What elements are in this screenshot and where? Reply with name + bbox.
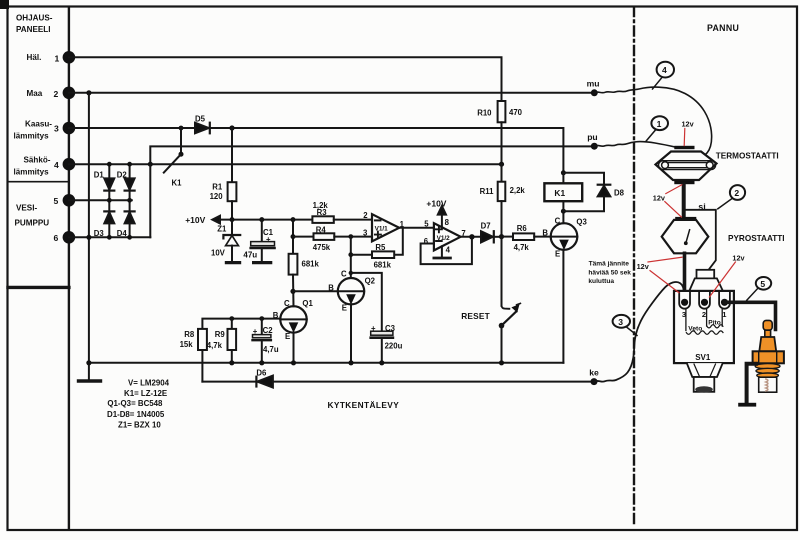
svg-text:Q2: Q2 xyxy=(365,276,376,285)
glow plug insulator cone xyxy=(759,337,776,351)
legend text block xyxy=(107,378,170,429)
resistor R9 4,7k xyxy=(207,319,236,363)
svg-text:15k: 15k xyxy=(180,340,194,349)
svg-text:Häl.: Häl. xyxy=(27,53,42,62)
svg-text:5: 5 xyxy=(424,220,429,229)
svg-text:Z1: Z1 xyxy=(217,225,227,234)
+10V arrow label left xyxy=(185,215,220,225)
SV1 Pito coil xyxy=(707,310,723,328)
node rail R9 xyxy=(229,360,234,365)
wire Kaasu pin3 to D5 xyxy=(69,127,195,129)
node D4 bottom xyxy=(127,235,132,240)
solenoid valve SV1 top boss cylinder xyxy=(697,270,715,279)
svg-text:E: E xyxy=(285,332,290,341)
diode D7 xyxy=(481,221,502,242)
zener Z1 10V xyxy=(211,220,240,263)
glow plug hex body xyxy=(753,351,784,363)
wire SV1 pin1 to glow plug thick xyxy=(725,302,776,329)
svg-text:D1: D1 xyxy=(94,170,105,179)
svg-text:+: + xyxy=(371,324,376,333)
node mu xyxy=(591,89,598,96)
thermostat top plate xyxy=(674,146,694,149)
resistor R11 2,2k xyxy=(480,164,526,236)
svg-text:KYTKENTÄLEVY: KYTKENTÄLEVY xyxy=(328,400,400,410)
svg-text:Tämä jännite: Tämä jännite xyxy=(589,260,630,267)
svg-text:6: 6 xyxy=(54,233,59,243)
svg-text:B: B xyxy=(542,229,548,238)
wire Maa ground drop xyxy=(88,93,90,381)
op-amp V1/1 xyxy=(363,211,405,241)
node Q1C Q2B junction xyxy=(290,289,295,294)
svg-text:SV1: SV1 xyxy=(695,353,711,362)
node C3 branch xyxy=(349,271,353,275)
wire V1/2 output xyxy=(461,236,481,238)
switch RESET top contact foot xyxy=(502,306,510,309)
node rail reset xyxy=(499,360,504,365)
transistor Q2 xyxy=(328,269,375,312)
svg-text:4,7k: 4,7k xyxy=(207,341,223,350)
ground bar glow plug xyxy=(738,403,756,407)
node R1 Z1 xyxy=(230,217,235,222)
node D7 R6 R11 reset junction xyxy=(499,234,504,239)
wire bridge right column xyxy=(149,164,151,237)
svg-text:VESI-: VESI- xyxy=(16,204,37,213)
svg-text:D3: D3 xyxy=(94,229,105,238)
contact K1 pivot xyxy=(179,152,184,157)
node Q3C K1 D8 xyxy=(561,209,566,214)
svg-text:PUMPPU: PUMPPU xyxy=(15,219,50,228)
relay coil K1 xyxy=(544,173,582,211)
svg-text:D1-D8= 1N4005: D1-D8= 1N4005 xyxy=(107,410,165,419)
solenoid valve SV1 body xyxy=(674,291,734,363)
svg-text:681k: 681k xyxy=(374,261,392,270)
svg-text:R5: R5 xyxy=(375,243,386,252)
node rail Q1E xyxy=(291,360,296,365)
node R10 R11 Sahko junction xyxy=(499,162,504,167)
ground Maa xyxy=(79,379,101,382)
wire pin5 line xyxy=(69,199,132,201)
svg-text:12v: 12v xyxy=(732,253,745,262)
svg-text:C: C xyxy=(341,269,347,278)
svg-text:681k: 681k xyxy=(302,260,320,269)
panel title OHJAUS-PANEELI xyxy=(14,14,60,244)
wire Q3 collector xyxy=(562,211,564,223)
svg-text:+: + xyxy=(266,235,271,244)
wire ke squiggle to SV1 pin3 xyxy=(594,282,684,382)
svg-text:PANNU: PANNU xyxy=(707,23,739,33)
svg-text:R10: R10 xyxy=(477,109,492,118)
svg-text:Z1= BZX 10: Z1= BZX 10 xyxy=(118,420,161,429)
svg-text:12v: 12v xyxy=(682,120,695,129)
svg-text:2,2k: 2,2k xyxy=(510,186,526,195)
svg-text:470: 470 xyxy=(509,108,523,117)
node R4 tap xyxy=(291,234,296,239)
svg-text:K1: K1 xyxy=(554,188,565,198)
svg-text:OHJAUS-: OHJAUS- xyxy=(16,14,53,23)
wire D5 to K1 coil column xyxy=(210,128,564,173)
node R9 top xyxy=(229,316,234,321)
wire Q1 base line xyxy=(202,319,280,329)
resistor R3 1,2k xyxy=(312,201,372,223)
switch RESET blade xyxy=(461,303,520,328)
dashed divider between KYTKENTALEVY and PANNU xyxy=(633,7,635,525)
wire pin3 column down to Q2 collector xyxy=(350,237,352,278)
wire Maa pin2 to mu xyxy=(69,92,594,94)
svg-text:4: 4 xyxy=(54,160,59,170)
svg-text:E: E xyxy=(342,303,347,312)
node rail C2 xyxy=(259,360,264,365)
svg-text:1,2k: 1,2k xyxy=(313,201,329,210)
wire V1/1 output xyxy=(399,227,434,229)
pyrostaatti body PYROSTAATTI xyxy=(662,220,709,253)
node pin6 Maa junction xyxy=(86,235,91,240)
svg-text:10V: 10V xyxy=(211,248,226,257)
wire reset column upper xyxy=(501,237,503,306)
control panel bus (OHJAUS-PANEELI) vertical line xyxy=(68,7,70,529)
svg-text:3: 3 xyxy=(363,228,368,237)
wire K1 top link to D8 xyxy=(563,172,604,174)
contact K1 blade xyxy=(164,154,181,172)
svg-text:2: 2 xyxy=(702,310,706,319)
svg-text:Kaasu-: Kaasu- xyxy=(25,120,52,129)
node rail Maa xyxy=(86,360,91,365)
thermostat bottom plate xyxy=(674,181,694,184)
wire mu squiggle to termostaatti xyxy=(594,87,711,156)
diode D6 xyxy=(256,368,273,387)
terminal 5 (Vesi-pumppu +) xyxy=(63,194,76,207)
wire Q3C to D8 bottom xyxy=(563,196,604,211)
SV1 pin 3 socket xyxy=(679,292,690,319)
SV1 bottom hex nut xyxy=(687,363,723,377)
capacitor C2 4,7u xyxy=(253,319,279,363)
svg-text:+10V: +10V xyxy=(185,215,205,225)
svg-text:D2: D2 xyxy=(117,170,128,179)
svg-text:475k: 475k xyxy=(313,243,331,252)
node D2-D4 mid xyxy=(127,198,132,203)
diode D4 xyxy=(117,200,135,238)
svg-text:4: 4 xyxy=(662,65,667,75)
diode D2 xyxy=(117,164,135,200)
svg-text:Q3: Q3 xyxy=(576,217,587,226)
node D1 top xyxy=(107,162,112,167)
node C2 top xyxy=(259,316,264,321)
wire pin6 feedback loop xyxy=(421,237,472,264)
wire D6 ke line xyxy=(202,381,594,383)
svg-text:lämmitys: lämmitys xyxy=(14,168,50,177)
svg-text:2: 2 xyxy=(734,188,739,198)
scan artifact corner mark xyxy=(0,0,9,9)
svg-text:K1: K1 xyxy=(172,178,183,187)
node pu xyxy=(591,143,598,150)
diode D1 xyxy=(94,164,115,200)
wire si to SV1 pin2 xyxy=(686,210,716,279)
svg-text:Q1: Q1 xyxy=(302,299,313,308)
node K1 contact stub xyxy=(179,126,184,131)
node rail Q2E xyxy=(348,360,353,365)
svg-text:pu: pu xyxy=(587,132,598,142)
callout circle 4 xyxy=(653,62,675,89)
svg-text:C: C xyxy=(555,216,561,225)
svg-text:V1/1: V1/1 xyxy=(375,226,389,233)
svg-text:R1: R1 xyxy=(212,182,223,191)
terminal 6 (Vesi-pumppu -) xyxy=(63,231,76,244)
resistor R8 15k xyxy=(180,329,207,382)
svg-text:12v: 12v xyxy=(653,194,666,203)
terminal 4 (Sahko-lammitys) xyxy=(63,158,76,171)
svg-text:PANEELI: PANEELI xyxy=(16,25,50,34)
wire pin6 line xyxy=(69,236,150,238)
svg-text:1: 1 xyxy=(657,119,662,129)
callout circle 5 xyxy=(747,277,771,300)
svg-text:E: E xyxy=(555,249,560,258)
wire K1 contact stub xyxy=(180,128,182,154)
resistor R10 470 xyxy=(477,101,522,164)
svg-text:lämmitys: lämmitys xyxy=(14,132,50,141)
svg-text:C2: C2 xyxy=(263,326,274,335)
svg-text:PYROSTAATTI: PYROSTAATTI xyxy=(728,234,785,243)
+10V arrow pin 8 xyxy=(426,198,446,227)
wire reset column lower xyxy=(501,326,503,363)
svg-text:TERMOSTAATTI: TERMOSTAATTI xyxy=(716,152,779,161)
wire pu squiggle to termostaatti top xyxy=(594,142,676,148)
wire Hal pin1 to R10 top xyxy=(69,57,502,101)
svg-text:D4: D4 xyxy=(117,229,128,238)
svg-text:3: 3 xyxy=(54,124,59,134)
svg-text:D5: D5 xyxy=(195,115,206,124)
ground bracket glow plug xyxy=(747,364,756,404)
svg-text:R11: R11 xyxy=(480,187,495,196)
svg-text:V= LM2904: V= LM2904 xyxy=(128,378,170,387)
svg-text:2: 2 xyxy=(54,89,59,99)
node ke xyxy=(591,378,598,385)
wire C3 branch xyxy=(351,273,382,331)
resistor R1 120 xyxy=(210,128,237,220)
wire 681k to Q1 collector xyxy=(292,275,295,307)
svg-text:3: 3 xyxy=(618,317,623,327)
wire pu line xyxy=(150,146,594,164)
wire Q2 emitter xyxy=(350,304,352,362)
transistor Q1 xyxy=(273,299,314,341)
SV1 top hex nut xyxy=(689,278,723,291)
wire junction to Q2 base xyxy=(293,290,338,292)
terminal 3 (Kaasu-lammitys) xyxy=(63,122,76,135)
red annotations 12v xyxy=(588,120,745,297)
SV1 pin 1 socket xyxy=(719,292,730,319)
wire Sahko pin4 line xyxy=(69,163,502,165)
node C1 top xyxy=(259,217,264,222)
node pin3 column xyxy=(348,234,353,239)
svg-text:mu: mu xyxy=(587,78,600,88)
wire thick pyrostaatti to SV1 pin3 xyxy=(683,253,687,300)
callout circle 1 xyxy=(646,116,668,141)
svg-text:12v: 12v xyxy=(637,262,650,271)
diode D5 xyxy=(195,115,210,134)
svg-text:D6: D6 xyxy=(256,368,267,377)
svg-text:R8: R8 xyxy=(184,330,195,339)
svg-text:+: + xyxy=(253,327,258,336)
wire +10V rail xyxy=(220,219,312,221)
svg-text:RESET: RESET xyxy=(461,311,490,321)
node 681k column top xyxy=(291,217,296,222)
svg-text:Maa: Maa xyxy=(27,89,43,98)
wire thick thermostat to pyrostaatti xyxy=(682,184,686,217)
svg-text:C3: C3 xyxy=(385,324,396,333)
SV1 bottom stem xyxy=(694,377,715,393)
svg-text:1: 1 xyxy=(55,53,60,63)
thermostat body TERMOSTAATTI xyxy=(656,152,717,181)
svg-text:220u: 220u xyxy=(385,341,403,350)
svg-text:120: 120 xyxy=(210,192,224,201)
wire Q1 emitter xyxy=(293,333,295,363)
node K1 coil top xyxy=(561,170,566,175)
panel bottom thick line xyxy=(8,286,69,289)
svg-text:R4: R4 xyxy=(316,225,327,234)
terminal 1 (Hal) xyxy=(63,51,76,64)
node pu tap on pin4 line xyxy=(148,162,153,167)
svg-text:47u: 47u xyxy=(243,251,257,260)
wire ground rail xyxy=(89,362,564,364)
callout circle 2 xyxy=(718,185,745,209)
terminal 2 (Maa) xyxy=(63,87,76,100)
glow plug top terminal xyxy=(763,320,772,337)
node D1-D3 mid xyxy=(107,198,112,203)
glow plug threads xyxy=(755,364,780,378)
svg-text:V1/2: V1/2 xyxy=(437,235,451,242)
node rail C3 xyxy=(379,360,384,365)
diode D3 xyxy=(94,200,115,238)
svg-text:6: 6 xyxy=(424,237,429,246)
transistor Q3 xyxy=(542,216,587,258)
resistor R6 4,7k xyxy=(502,224,551,252)
diode D8 xyxy=(598,173,625,197)
red note Tama jannite haviaa 50 sek kuluttua xyxy=(588,260,631,285)
SV1 Veto coil xyxy=(686,310,723,335)
svg-text:4,7u: 4,7u xyxy=(263,345,279,354)
node D2 top xyxy=(127,162,132,167)
svg-text:ke: ke xyxy=(589,367,599,377)
resistor R4 475k xyxy=(293,225,372,252)
resistor 681k vertical xyxy=(289,254,320,275)
svg-text:häviää 50 sek: häviää 50 sek xyxy=(588,270,631,277)
svg-text:2: 2 xyxy=(363,211,368,220)
svg-text:C: C xyxy=(284,299,290,308)
svg-text:5: 5 xyxy=(54,196,59,206)
ground pin 4 xyxy=(434,246,451,258)
pyrostaatti top plate xyxy=(675,217,696,221)
svg-text:5: 5 xyxy=(760,279,765,289)
panel divider line xyxy=(8,181,69,183)
svg-text:K1= LZ-12E: K1= LZ-12E xyxy=(124,389,167,398)
svg-text:Q1-Q3= BC548: Q1-Q3= BC548 xyxy=(107,399,163,408)
callout circle 3 xyxy=(613,315,637,336)
wire Q3 emitter to rail xyxy=(562,250,564,363)
glow plug lower body with element xyxy=(759,377,777,392)
svg-text:4,7k: 4,7k xyxy=(514,243,530,252)
node feedback join xyxy=(469,234,474,239)
svg-text:D8: D8 xyxy=(614,188,625,197)
svg-text:kuluttua: kuluttua xyxy=(588,278,614,285)
resistor R5 681k feedback xyxy=(351,228,403,270)
svg-text:8: 8 xyxy=(445,218,450,227)
SV1 pin 2 socket xyxy=(699,292,710,319)
svg-text:4: 4 xyxy=(446,246,451,255)
svg-text:R6: R6 xyxy=(517,224,528,233)
svg-text:+10V: +10V xyxy=(426,198,446,208)
node R1 top xyxy=(229,125,234,130)
node R5 left xyxy=(348,252,353,257)
svg-text:D7: D7 xyxy=(481,221,491,230)
capacitor C3 220u xyxy=(371,324,403,363)
node Maa branch xyxy=(86,90,91,95)
svg-text:R9: R9 xyxy=(215,330,226,339)
capacitor C1 47u xyxy=(243,220,274,263)
wire 681k column xyxy=(292,220,294,254)
op-amp V1/2 xyxy=(424,218,466,255)
node D3 bottom xyxy=(107,235,112,240)
svg-text:Sähkö-: Sähkö- xyxy=(24,156,51,165)
svg-text:B: B xyxy=(328,284,334,293)
